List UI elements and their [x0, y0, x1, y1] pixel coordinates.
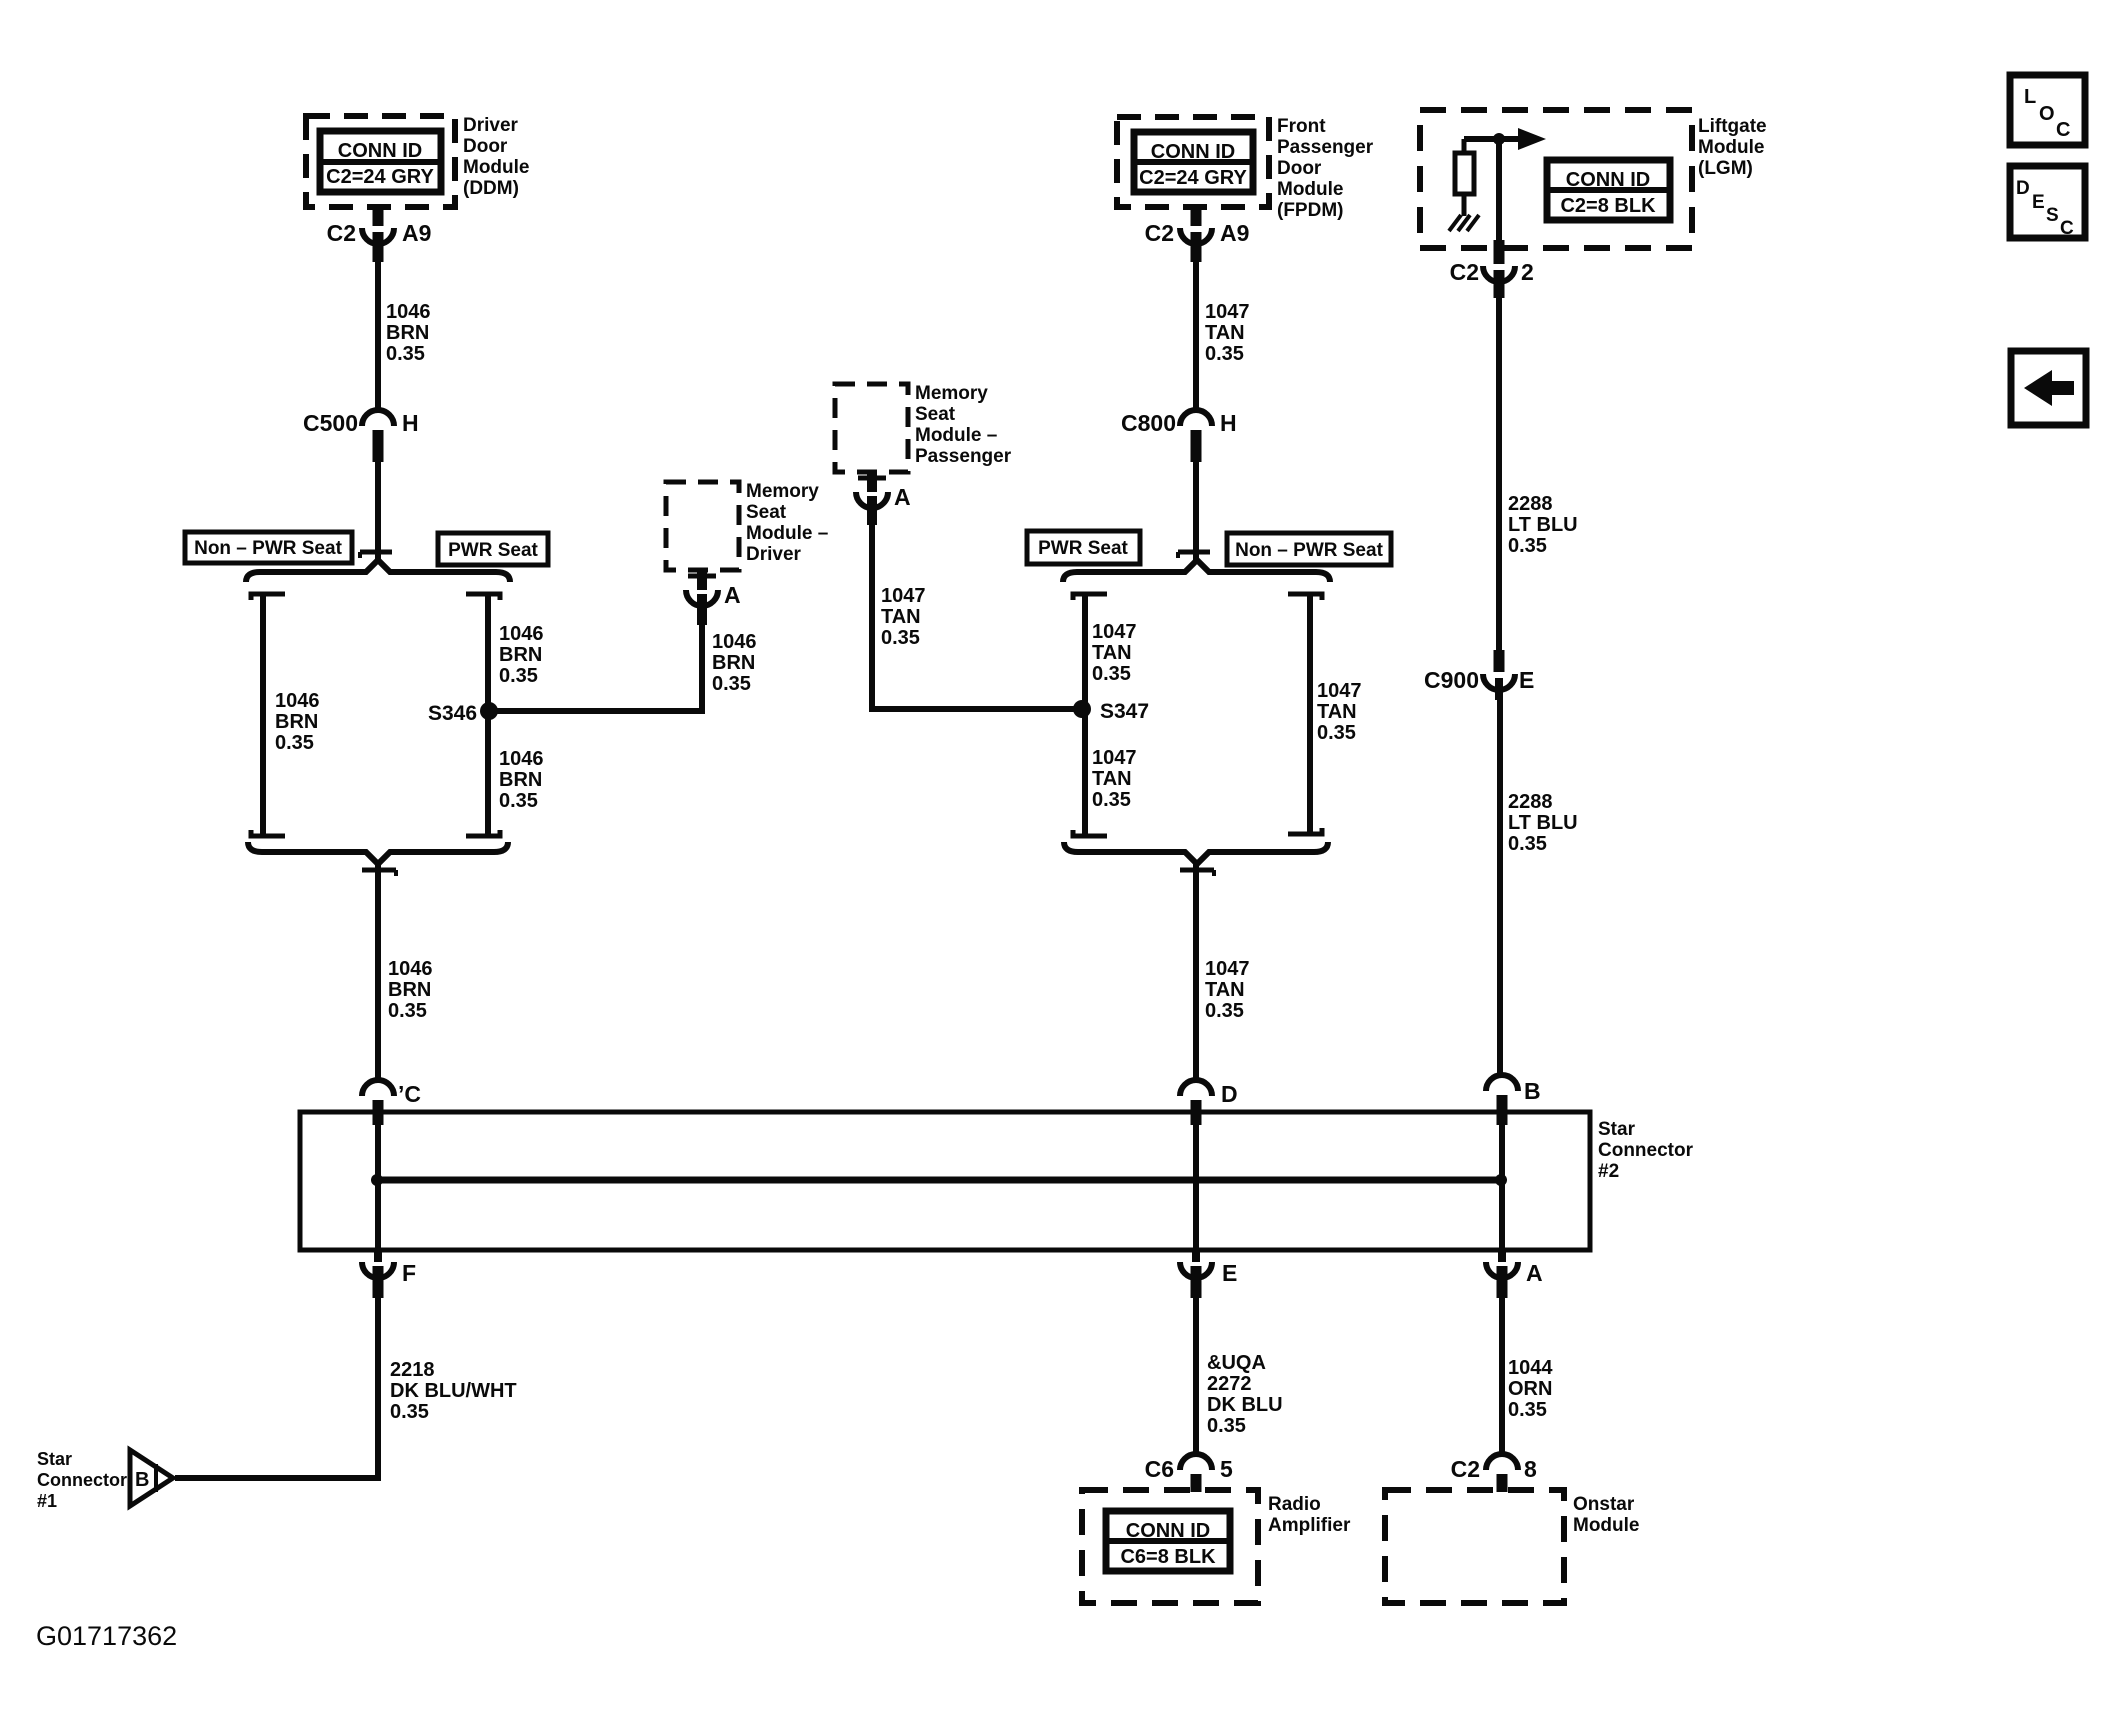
svg-text:Module: Module [1573, 1515, 1640, 1536]
svg-text:A9: A9 [1220, 220, 1249, 246]
svg-text:TAN: TAN [1205, 322, 1245, 344]
LOC icon box [2010, 75, 2085, 145]
svg-text:Liftgate: Liftgate [1698, 116, 1767, 137]
wire seat group to connector D [1180, 863, 1214, 1082]
svg-text:5: 5 [1220, 1456, 1233, 1482]
svg-text:0.35: 0.35 [1508, 1399, 1547, 1421]
wire C through star box [375, 1112, 381, 1250]
svg-text:A: A [894, 484, 911, 510]
star connector #2 box [300, 1112, 1590, 1250]
connector A (memory seat module driver) [686, 570, 718, 625]
svg-text:E: E [1222, 1260, 1237, 1286]
svg-text:D: D [2016, 178, 2030, 199]
DESC icon box [2010, 166, 2085, 238]
svg-text:1046: 1046 [275, 690, 320, 712]
svg-text:Module: Module [1277, 179, 1344, 200]
svg-text:CONN ID: CONN ID [1126, 1520, 1210, 1542]
connector B (star connector #2 top) [1486, 1075, 1518, 1125]
resistor (LGM terminating resistor) [1455, 139, 1474, 216]
svg-text:C2: C2 [1451, 1456, 1480, 1482]
label Driver Door Module (DDM) [463, 115, 530, 199]
DDM CONN ID box [320, 131, 441, 192]
wire 2218 DK BLU/WHT (F to star connector #1) [175, 1298, 378, 1478]
svg-text:Star: Star [37, 1449, 72, 1469]
star connector #1 triangle pin B [130, 1450, 173, 1506]
svg-text:Module –: Module – [915, 425, 997, 446]
wire 2288 LT BLU (upper) [1496, 298, 1502, 650]
svg-text:0.35: 0.35 [388, 1000, 427, 1022]
label box Non - PWR Seat (right) [1227, 533, 1391, 565]
svg-text:Star: Star [1598, 1119, 1636, 1140]
svg-text:H: H [402, 410, 419, 436]
svg-text:Driver: Driver [463, 115, 519, 136]
svg-text:1047: 1047 [1092, 621, 1137, 643]
LGM CONN ID box [1547, 160, 1670, 220]
wire C800 to seat brace [1178, 462, 1210, 561]
svg-text:0.35: 0.35 [275, 732, 314, 754]
svg-text:2272: 2272 [1207, 1373, 1252, 1395]
svg-text:2: 2 [1521, 259, 1534, 285]
svg-text:1046: 1046 [712, 631, 757, 653]
svg-text:A9: A9 [402, 220, 431, 246]
star connector #2 internal bus bar [371, 1174, 1507, 1186]
connector C500 pin H [362, 410, 394, 462]
svg-text:Seat: Seat [915, 404, 956, 425]
svg-text:1047: 1047 [1317, 680, 1362, 702]
connector C2 pin 2 (LGM) [1483, 266, 1515, 298]
svg-text:LT BLU: LT BLU [1508, 514, 1578, 536]
svg-text:C2: C2 [1450, 259, 1479, 285]
radio amplifier CONN ID box [1106, 1511, 1230, 1571]
wire &amp;UQA 2272 DK BLU (E to radio amplifier) [1193, 1298, 1199, 1452]
svg-text:DK BLU/WHT: DK BLU/WHT [390, 1380, 517, 1402]
svg-text:0.35: 0.35 [1207, 1415, 1246, 1437]
connector A (memory seat module passenger) [856, 472, 888, 525]
svg-text:#1: #1 [37, 1491, 57, 1511]
module LGM (Liftgate Module) dashed box [1420, 110, 1692, 248]
module Onstar Module dashed box [1385, 1490, 1564, 1603]
connector C6 pin 5 (radio amplifier) [1180, 1454, 1212, 1492]
svg-text:BRN: BRN [712, 652, 755, 674]
svg-text:PWR Seat: PWR Seat [448, 540, 538, 561]
svg-text:C2: C2 [327, 220, 356, 246]
svg-text:Memory: Memory [746, 481, 819, 502]
svg-text:C: C [2056, 119, 2070, 141]
connector D (star connector #2 top) [1180, 1080, 1212, 1125]
module Memory Seat Module - Passenger dashed box [835, 384, 908, 472]
ground hash (LGM internal) [1449, 215, 1479, 231]
wire B through star box [1499, 1112, 1505, 1250]
svg-text:Passenger: Passenger [915, 446, 1012, 467]
wire 1046 BRN (DDM to C500) [375, 262, 381, 408]
back arrow icon box [2011, 351, 2086, 425]
brace bottom (left seat group) [248, 842, 508, 864]
svg-text:BRN: BRN [499, 769, 542, 791]
svg-text:S347: S347 [1100, 700, 1149, 723]
svg-text:1046: 1046 [386, 301, 431, 323]
svg-text:1046: 1046 [388, 958, 433, 980]
svg-text:L: L [2024, 86, 2036, 108]
wire 1044 ORN (A to onstar module) [1499, 1298, 1505, 1452]
svg-text:Driver: Driver [746, 544, 802, 565]
svg-text:0.35: 0.35 [1092, 663, 1131, 685]
svg-text:Memory: Memory [915, 383, 988, 404]
connector E (star connector #2 bottom) [1180, 1250, 1212, 1298]
svg-text:D: D [1221, 1081, 1238, 1107]
splice S347 [1073, 700, 1091, 718]
svg-text:1047: 1047 [881, 585, 926, 607]
svg-text:CONN ID: CONN ID [338, 140, 422, 162]
svg-text:O: O [2039, 103, 2055, 125]
svg-text:1047: 1047 [1092, 747, 1137, 769]
module DDM (Driver Door Module) dashed box [306, 116, 455, 207]
label box PWR Seat (left) [438, 533, 548, 565]
brace bottom (right seat group) [1064, 842, 1328, 864]
svg-text:Door: Door [463, 136, 508, 157]
connector C2 pin A9 (DDM) [362, 228, 394, 262]
svg-text:1046: 1046 [499, 623, 544, 645]
svg-text:0.35: 0.35 [390, 1401, 429, 1423]
svg-text:(LGM): (LGM) [1698, 158, 1753, 179]
connector C2 pin 8 (onstar module) [1486, 1454, 1518, 1492]
svg-text:C500: C500 [303, 410, 358, 436]
wire with arrow (LGM internal bus) [1464, 128, 1546, 150]
svg-text:0.35: 0.35 [499, 790, 538, 812]
svg-text:Onstar: Onstar [1573, 1494, 1635, 1515]
wire 1047 TAN (passenger memory) label [881, 585, 926, 649]
svg-text:0.35: 0.35 [712, 673, 751, 695]
svg-text:Module: Module [463, 157, 530, 178]
svg-text:2218: 2218 [390, 1359, 435, 1381]
connector C (star connector #2 top) [362, 1080, 394, 1125]
connector C800 pin H [1180, 410, 1212, 462]
module FPDM (Front Passenger Door Module) dashed box [1117, 117, 1269, 207]
svg-text:ORN: ORN [1508, 1378, 1552, 1400]
svg-text:2288: 2288 [1508, 791, 1553, 813]
svg-text:1047: 1047 [1205, 301, 1250, 323]
svg-text:PWR Seat: PWR Seat [1038, 538, 1128, 559]
svg-text:CONN ID: CONN ID [1566, 169, 1650, 191]
svg-text:A: A [1526, 1260, 1543, 1286]
svg-text:0.35: 0.35 [1317, 722, 1356, 744]
label Star Connector #1 [37, 1449, 127, 1511]
svg-text:0.35: 0.35 [1508, 535, 1547, 557]
svg-text:BRN: BRN [388, 979, 431, 1001]
svg-text:LT BLU: LT BLU [1508, 812, 1578, 834]
wire seat group to connector C [362, 863, 396, 1082]
FPDM CONN ID box [1134, 132, 1253, 192]
svg-text:1044: 1044 [1508, 1357, 1553, 1379]
svg-text:0.35: 0.35 [386, 343, 425, 365]
module Memory Seat Module - Driver dashed box [666, 482, 739, 570]
svg-text:C900: C900 [1424, 667, 1479, 693]
svg-text:E: E [1519, 667, 1534, 693]
svg-text:C2=8 BLK: C2=8 BLK [1560, 195, 1656, 217]
brace top (left seat group) [246, 560, 510, 582]
svg-text:BRN: BRN [499, 644, 542, 666]
svg-text:C6: C6 [1145, 1456, 1174, 1482]
svg-text:Connector: Connector [1598, 1140, 1694, 1161]
svg-text:0.35: 0.35 [1508, 833, 1547, 855]
svg-text:E: E [2032, 192, 2045, 213]
figure number G01717362 [36, 1621, 177, 1651]
svg-text:Door: Door [1277, 158, 1322, 179]
wire 1046 BRN (driver memory) label [712, 631, 757, 695]
svg-text:Passenger: Passenger [1277, 137, 1374, 158]
seat option line right (Non-PWR, 1047 TAN) [1288, 592, 1322, 836]
svg-text:Front: Front [1277, 116, 1326, 137]
svg-text:0.35: 0.35 [1205, 1000, 1244, 1022]
wire S347 to memory seat module passenger [872, 525, 1082, 709]
svg-text:B: B [1524, 1078, 1541, 1104]
svg-text:’C: ’C [398, 1081, 421, 1107]
wire stub DDM to C2 connector [373, 207, 384, 226]
svg-text:BRN: BRN [386, 322, 429, 344]
svg-text:CONN ID: CONN ID [1151, 141, 1235, 163]
svg-text:TAN: TAN [1092, 768, 1132, 790]
label Liftgate Module (LGM) [1698, 116, 1767, 179]
svg-text:#2: #2 [1598, 1161, 1619, 1182]
connector C2 pin A9 (FPDM) [1180, 228, 1212, 262]
label box Non - PWR Seat (left) [185, 532, 352, 563]
svg-text:S: S [2046, 205, 2059, 226]
svg-text:1046: 1046 [499, 748, 544, 770]
svg-text:G01717362: G01717362 [36, 1621, 177, 1651]
wire 2288 LT BLU (lower) [1497, 700, 1503, 1078]
connector A (star connector #2 bottom) [1486, 1250, 1518, 1298]
svg-text:B: B [135, 1469, 149, 1491]
svg-text:TAN: TAN [1317, 701, 1357, 723]
svg-text:TAN: TAN [1092, 642, 1132, 664]
module Radio Amplifier dashed box [1082, 1490, 1258, 1603]
svg-text:F: F [402, 1260, 416, 1286]
svg-text:Amplifier: Amplifier [1268, 1515, 1351, 1536]
svg-text:A: A [724, 582, 741, 608]
wire stub FPDM to C2 connector [1191, 207, 1202, 226]
wire D through star box [1193, 1112, 1199, 1250]
DDM CONN ID text [326, 140, 434, 188]
wire C500 to seat brace [360, 462, 392, 561]
svg-text:Non – PWR Seat: Non – PWR Seat [1235, 540, 1383, 561]
svg-text:C2: C2 [1145, 220, 1174, 246]
svg-text:Non – PWR Seat: Non – PWR Seat [194, 538, 342, 559]
svg-text:0.35: 0.35 [499, 665, 538, 687]
svg-text:(FPDM): (FPDM) [1277, 200, 1343, 221]
svg-text:1047: 1047 [1205, 958, 1250, 980]
svg-text:&UQA: &UQA [1207, 1352, 1266, 1374]
seat option line right (PWR, 1046 BRN) [466, 592, 500, 838]
wire 1047 TAN (FPDM to C800) [1193, 262, 1199, 408]
svg-text:8: 8 [1524, 1456, 1537, 1482]
seat option line left (Non-PWR, 1046 BRN) [251, 592, 285, 838]
svg-text:DK BLU: DK BLU [1207, 1394, 1283, 1416]
svg-text:Module –: Module – [746, 523, 828, 544]
brace top (right seat group) [1063, 560, 1330, 582]
svg-text:0.35: 0.35 [1092, 789, 1131, 811]
svg-text:BRN: BRN [275, 711, 318, 733]
svg-text:C800: C800 [1121, 410, 1176, 436]
svg-text:C2=24 GRY: C2=24 GRY [1139, 167, 1247, 189]
svg-text:C: C [2060, 218, 2074, 239]
svg-text:S346: S346 [428, 702, 477, 725]
svg-text:Radio: Radio [1268, 1494, 1321, 1515]
wire S346 to memory seat module driver [489, 625, 702, 711]
splice S346 [480, 702, 498, 720]
svg-text:Module: Module [1698, 137, 1765, 158]
svg-text:0.35: 0.35 [881, 627, 920, 649]
seat option line left (PWR, 1047 TAN) [1073, 592, 1107, 838]
label Front Passenger Door Module (FPDM) [1277, 116, 1374, 221]
svg-text:Connector: Connector [37, 1470, 127, 1490]
connector F (star connector #2 bottom) [362, 1250, 394, 1298]
svg-text:Seat: Seat [746, 502, 787, 523]
svg-text:TAN: TAN [1205, 979, 1245, 1001]
label box PWR Seat (right) [1027, 531, 1140, 564]
svg-text:H: H [1220, 410, 1237, 436]
svg-text:C2=24 GRY: C2=24 GRY [326, 166, 434, 188]
svg-text:TAN: TAN [881, 606, 921, 628]
wire LGM to C2 connector [1496, 139, 1502, 264]
svg-text:(DDM): (DDM) [463, 178, 519, 199]
svg-text:0.35: 0.35 [1205, 343, 1244, 365]
connector C900 pin E [1483, 650, 1515, 700]
svg-text:C6=8 BLK: C6=8 BLK [1120, 1546, 1216, 1568]
svg-text:2288: 2288 [1508, 493, 1553, 515]
